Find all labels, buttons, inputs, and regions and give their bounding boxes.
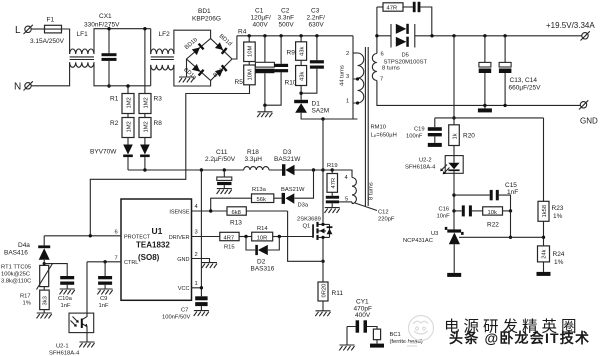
wire switch node to drain	[322, 119, 324, 223]
svg-text:R13a: R13a	[252, 187, 267, 193]
svg-text:BAS316: BAS316	[251, 266, 275, 273]
svg-text:L: L	[15, 25, 21, 36]
svg-text:D2: D2	[257, 259, 266, 266]
capacitor snubber	[413, 2, 416, 12]
svg-text:6: 6	[115, 230, 118, 236]
svg-text:400V: 400V	[253, 22, 269, 29]
ground at U1 GND pin	[202, 263, 217, 268]
svg-text:C11: C11	[216, 149, 228, 156]
svg-text:7: 7	[115, 256, 118, 262]
svg-text:1nF: 1nF	[61, 303, 71, 309]
wire ISENSE row	[192, 210, 228, 212]
transformer core	[365, 47, 368, 206]
wire U3 ref row	[459, 236, 544, 238]
svg-text:GND: GND	[580, 117, 598, 126]
diode BD1a	[192, 64, 205, 76]
svg-text:1nF: 1nF	[99, 303, 109, 309]
svg-text:CTRL: CTRL	[124, 260, 138, 266]
svg-text:U3: U3	[431, 231, 438, 237]
wire source sense row	[321, 260, 324, 263]
ground bar at C13 C14	[478, 108, 492, 112]
svg-text:10R: 10R	[257, 235, 268, 241]
ground bar at BC1	[370, 344, 384, 348]
diode BYV70W right	[144, 138, 146, 145]
svg-text:C16: C16	[439, 207, 450, 213]
wire feedback column from output rail	[452, 34, 455, 37]
resistor R13	[227, 207, 246, 215]
svg-text:C19: C19	[414, 127, 425, 133]
svg-text:R14: R14	[257, 226, 268, 232]
svg-text:BAS21W: BAS21W	[274, 156, 301, 163]
svg-text:R19: R19	[327, 163, 338, 169]
svg-text:47R: 47R	[331, 178, 337, 189]
ground earth at C1 C2	[257, 112, 272, 117]
svg-text:N: N	[14, 82, 21, 93]
ground bar at R24	[537, 272, 551, 276]
svg-text:SA2M: SA2M	[312, 108, 330, 115]
svg-text:R20: R20	[463, 133, 475, 140]
svg-text:LF1: LF1	[77, 31, 89, 38]
wire bridge left vertex to earth	[186, 59, 188, 77]
wire to ref node	[510, 211, 512, 237]
transformer secondary winding 8 turns	[376, 7, 378, 54]
wire LF1 top right to rail	[94, 29, 151, 54]
svg-text:10nF: 10nF	[437, 214, 451, 220]
wire VCC supply node	[128, 170, 352, 178]
svg-text:24k: 24k	[542, 249, 548, 258]
svg-text:NCP431AC: NCP431AC	[403, 238, 433, 244]
svg-text:C10a: C10a	[58, 296, 73, 302]
svg-text:10M: 10M	[248, 46, 254, 57]
svg-text:TEA1832: TEA1832	[136, 241, 170, 250]
wire negative rail	[90, 85, 249, 236]
node C1 C2 minus	[263, 104, 266, 107]
svg-text:RT1 TTC05: RT1 TTC05	[1, 265, 31, 271]
svg-text:1k: 1k	[453, 133, 459, 139]
svg-text:D5: D5	[402, 53, 409, 59]
ground at C9	[97, 289, 112, 294]
wire jog C19 R23	[435, 117, 544, 119]
ground bar at U3	[447, 273, 461, 277]
svg-text:56k: 56k	[257, 197, 266, 203]
wire DRIVER row	[192, 236, 220, 238]
svg-text:CX1: CX1	[99, 13, 112, 20]
svg-text:D4a: D4a	[18, 242, 30, 249]
resistor R22	[483, 207, 503, 215]
optocoupler U2-1	[86, 262, 88, 313]
wire CTRL row	[87, 261, 121, 263]
svg-text:F1: F1	[47, 17, 55, 24]
svg-text:R4: R4	[238, 29, 247, 36]
svg-text:RM10: RM10	[371, 125, 386, 131]
wire GND pin	[192, 259, 210, 263]
ground at C11	[217, 189, 232, 194]
svg-text:R3: R3	[154, 96, 163, 103]
svg-text:2SK3689: 2SK3689	[297, 217, 321, 223]
wire opto cathode column	[453, 173, 455, 229]
svg-text:3: 3	[195, 230, 198, 236]
svg-text:1%: 1%	[23, 301, 31, 307]
svg-text:D1: D1	[312, 101, 321, 108]
svg-text:8 turns: 8 turns	[382, 65, 400, 71]
svg-text:1M2: 1M2	[127, 97, 133, 108]
svg-text:DRIVER: DRIVER	[169, 235, 190, 241]
svg-text:R13: R13	[230, 220, 242, 227]
svg-text:330nF/275V: 330nF/275V	[84, 22, 120, 29]
wire LF2 top to bridge	[174, 30, 211, 54]
svg-text:43k: 43k	[300, 47, 306, 56]
svg-text:R11: R11	[332, 290, 344, 297]
svg-text:CY1: CY1	[356, 299, 369, 306]
svg-text:C2: C2	[281, 8, 290, 15]
svg-text:1: 1	[346, 99, 349, 105]
svg-text:500V: 500V	[279, 22, 295, 29]
svg-text:1M2: 1M2	[127, 121, 133, 132]
svg-text:4R7: 4R7	[224, 235, 235, 241]
diode BD1b	[192, 43, 205, 55]
capacitor C12	[331, 192, 333, 196]
svg-text:1M2: 1M2	[144, 121, 150, 132]
svg-text:R1: R1	[110, 96, 119, 103]
svg-text:6k8: 6k8	[232, 210, 241, 216]
svg-text:R15: R15	[224, 245, 235, 251]
svg-text:2.2nF/: 2.2nF/	[307, 15, 326, 22]
svg-text:SFH618A-4: SFH618A-4	[405, 165, 436, 171]
svg-text:ISENSE: ISENSE	[169, 209, 190, 215]
svg-text:2: 2	[346, 51, 349, 57]
wire DC+ rail primary	[237, 35, 353, 37]
watermark logo	[405, 316, 434, 347]
svg-text:3.3µH: 3.3µH	[245, 156, 263, 163]
wire secondary ground rail	[483, 104, 486, 107]
wire bridge right vertex to DC+ rail	[232, 36, 237, 59]
ground earth at bridge	[179, 77, 194, 82]
capacitor C9	[104, 262, 106, 276]
resistor R1	[127, 86, 129, 94]
svg-text:44 turns: 44 turns	[340, 65, 346, 86]
IC U1 TEA1832	[121, 199, 192, 300]
svg-text:R22: R22	[487, 222, 499, 229]
svg-text:8 turns: 8 turns	[369, 182, 375, 200]
diode D5 dual	[391, 24, 415, 48]
svg-text:7: 7	[380, 77, 383, 83]
svg-text:头条 @卧龙会IT技术: 头条 @卧龙会IT技术	[449, 330, 590, 346]
svg-text:10M: 10M	[248, 69, 254, 80]
svg-text:R24: R24	[553, 251, 565, 258]
svg-text:BYV70W: BYV70W	[90, 149, 117, 156]
svg-text:R18: R18	[247, 149, 259, 156]
wire LF2 bottom to bridge bottom vertex	[174, 65, 211, 86]
svg-text:D3: D3	[283, 149, 292, 156]
wire fuse to LF1	[62, 29, 70, 54]
svg-text:(SO8): (SO8)	[138, 253, 160, 262]
svg-text:3.8k@110C: 3.8k@110C	[1, 279, 31, 285]
transformer primary winding 44 turns	[358, 53, 364, 103]
svg-text:C15: C15	[505, 182, 517, 189]
svg-text:3k3: 3k3	[43, 296, 49, 305]
svg-text:GND: GND	[177, 257, 189, 263]
svg-text:3.15A/250V: 3.15A/250V	[30, 38, 65, 45]
svg-text:D3a: D3a	[298, 203, 309, 209]
svg-text:Q1: Q1	[303, 224, 311, 230]
capacitor C14	[503, 34, 506, 37]
svg-text:STPS20M100ST: STPS20M100ST	[384, 60, 428, 66]
terminal GND	[580, 102, 586, 108]
resistor 47R snubber	[377, 6, 383, 8]
ground at C7	[194, 311, 209, 316]
svg-text:C3: C3	[311, 8, 320, 15]
svg-text:400V: 400V	[355, 312, 371, 319]
svg-text:10k: 10k	[488, 210, 497, 216]
svg-text:220pF: 220pF	[378, 217, 395, 223]
svg-text:R9: R9	[287, 50, 296, 57]
svg-text:100k@25C: 100k@25C	[1, 272, 30, 278]
wire output rail	[432, 35, 582, 37]
svg-text:120µF/: 120µF/	[251, 15, 272, 22]
svg-text:U1: U1	[152, 226, 163, 236]
ground at R11	[315, 311, 330, 316]
svg-text:1M2: 1M2	[144, 97, 150, 108]
svg-text:2: 2	[195, 252, 198, 258]
svg-text:660µF/25V: 660µF/25V	[509, 85, 542, 92]
capacitor C10a	[44, 264, 67, 276]
svg-text:C12: C12	[378, 210, 389, 216]
diode BD1d	[215, 42, 228, 54]
transformer primary column	[352, 36, 354, 119]
svg-text:C7: C7	[181, 308, 188, 314]
svg-text:1%: 1%	[554, 259, 564, 266]
svg-text:U2-2: U2-2	[419, 158, 432, 164]
svg-text:R8: R8	[154, 120, 163, 127]
wire R3 column from top rail	[144, 29, 146, 94]
svg-text:100nF: 100nF	[406, 134, 423, 140]
wire C1 C2 minus to ground	[264, 105, 266, 112]
svg-text:VCC: VCC	[178, 286, 190, 292]
svg-text:C13, C14: C13, C14	[510, 77, 538, 84]
ground at U2-1 emitter	[79, 342, 94, 347]
wire L to fuse	[32, 28, 45, 30]
svg-text:Lₚ=650µH: Lₚ=650µH	[371, 133, 397, 139]
capacitor C13	[483, 34, 486, 37]
svg-text:3: 3	[346, 74, 349, 80]
svg-text:KBP206G: KBP206G	[192, 16, 221, 23]
svg-text:43k: 43k	[300, 72, 306, 81]
svg-text:R17: R17	[20, 294, 31, 300]
wire VCC pin and supply column	[192, 170, 202, 296]
svg-text:R5: R5	[235, 79, 244, 86]
ground at C12	[325, 208, 340, 213]
svg-text:5: 5	[345, 197, 348, 203]
ground earth at CY1	[339, 345, 354, 350]
svg-text:BAS21W: BAS21W	[281, 187, 305, 193]
svg-text:2.2µF/50V: 2.2µF/50V	[205, 156, 236, 163]
ground at R17	[37, 313, 52, 318]
diode BD1c	[215, 65, 228, 77]
svg-text:R23: R23	[552, 205, 564, 212]
wire PROTECT row	[44, 235, 121, 237]
fuse F1	[45, 25, 62, 33]
svg-text:6: 6	[381, 52, 384, 58]
svg-text:LF2: LF2	[159, 31, 171, 38]
ground at C10a	[59, 289, 74, 294]
svg-text:U2-1: U2-1	[56, 344, 69, 350]
svg-text:1%: 1%	[553, 213, 563, 220]
svg-text:1: 1	[195, 281, 198, 287]
svg-text:47R: 47R	[387, 6, 398, 12]
svg-text:BD1: BD1	[198, 8, 211, 15]
svg-text:+19.5V/3.34A: +19.5V/3.34A	[546, 21, 595, 30]
svg-text:C1: C1	[255, 8, 264, 15]
ground bar at C19	[428, 143, 442, 147]
junction nodes on supply wire	[143, 168, 146, 171]
svg-text:R2: R2	[110, 120, 119, 127]
svg-text:SFH618A-4: SFH618A-4	[49, 351, 80, 356]
svg-text:630V: 630V	[309, 22, 325, 29]
wire C12 to aux pin 5	[339, 201, 352, 203]
svg-text:BAS416: BAS416	[4, 250, 28, 257]
wire N rail	[32, 62, 70, 86]
svg-text:BC1: BC1	[390, 332, 401, 338]
svg-text:3.3nF: 3.3nF	[278, 15, 295, 22]
ground bar at C13 C14	[484, 105, 486, 108]
svg-text:100nF/50V: 100nF/50V	[162, 315, 190, 321]
svg-text:R10: R10	[285, 80, 297, 87]
svg-text:0R20: 0R20	[322, 284, 328, 298]
resistor R15	[220, 232, 239, 240]
svg-text:C9: C9	[100, 296, 107, 302]
wire 56k branch to ISENSE	[211, 198, 252, 211]
svg-text:1k58: 1k58	[542, 205, 548, 218]
